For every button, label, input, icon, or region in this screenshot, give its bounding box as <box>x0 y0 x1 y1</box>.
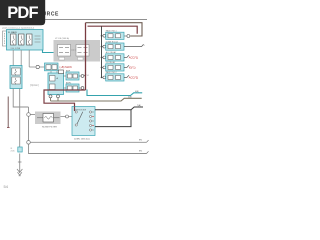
svg-text:ACC(*1): ACC(*1) <box>129 56 138 59</box>
svg-text:1J: 1J <box>87 75 89 77</box>
svg-text:ACC(*2): ACC(*2) <box>129 76 138 79</box>
svg-text:RADIO NO.2: RADIO NO.2 <box>106 71 117 74</box>
svg-text:5(B): 5(B) <box>128 96 132 98</box>
svg-text:4(B): 4(B) <box>135 91 139 93</box>
svg-text:7(A): 7(A) <box>137 104 141 107</box>
svg-text:I/P J/B (SEE A): I/P J/B (SEE A) <box>55 37 69 40</box>
svg-text:5: 5 <box>144 45 145 47</box>
svg-text:FL MAIN: FL MAIN <box>8 31 17 34</box>
svg-text:2135: 2135 <box>11 151 15 153</box>
svg-text:DOME ECU-B: DOME ECU-B <box>106 41 119 43</box>
svg-text:NOISE FILTER: NOISE FILTER <box>42 127 57 129</box>
svg-text:2.0L 1.25B: 2.0L 1.25B <box>11 48 21 50</box>
svg-text:54: 54 <box>4 184 9 189</box>
svg-text:AMP2: AMP2 <box>66 81 71 84</box>
svg-text:IG1 RELAY: IG1 RELAY <box>106 61 116 64</box>
svg-text:(+B) MAIN: (+B) MAIN <box>60 65 72 69</box>
svg-text:IG(*1): IG(*1) <box>129 66 136 69</box>
svg-text:[Option]: [Option] <box>30 84 39 87</box>
svg-text:2(GR) 1(W) 4(L): 2(GR) 1(W) 4(L) <box>74 139 90 141</box>
svg-text:RADIO NO.1: RADIO NO.1 <box>106 30 117 33</box>
svg-text:PDF: PDF <box>7 4 38 22</box>
svg-text:ACC RELAY: ACC RELAY <box>106 51 117 54</box>
